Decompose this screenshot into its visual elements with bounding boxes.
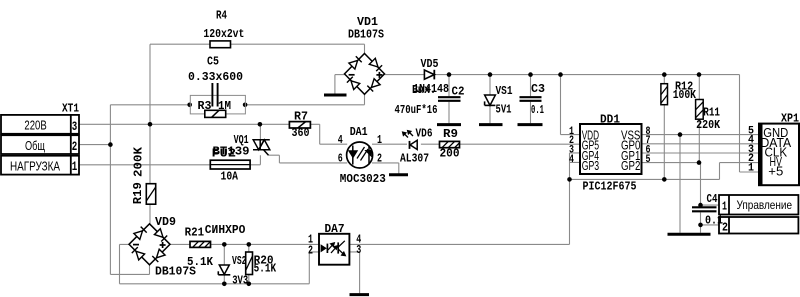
svg-text:MOC3023: MOC3023	[340, 173, 386, 186]
svg-text:10A: 10A	[221, 170, 239, 183]
svg-text:2: 2	[72, 139, 78, 154]
svg-text:VD9: VD9	[155, 216, 176, 229]
svg-text:R11: R11	[703, 106, 720, 119]
svg-text:3: 3	[356, 244, 361, 257]
svg-text:DA7: DA7	[325, 223, 345, 236]
svg-text:0.1: 0.1	[531, 104, 544, 117]
svg-text:4: 4	[569, 154, 574, 166]
svg-text:R21: R21	[185, 227, 205, 240]
svg-text:VD5: VD5	[421, 58, 439, 71]
svg-text:+5: +5	[768, 164, 783, 179]
svg-text:3: 3	[72, 119, 78, 134]
svg-text:НАГРУЗКА: НАГРУЗКА	[10, 160, 61, 174]
svg-text:R19: R19	[132, 182, 145, 204]
svg-text:470uF*16: 470uF*16	[395, 104, 438, 117]
svg-text:VD6: VD6	[416, 128, 433, 141]
svg-text:1: 1	[377, 134, 382, 147]
svg-text:DA1: DA1	[350, 126, 368, 139]
svg-text:220В: 220В	[24, 118, 46, 132]
svg-text:СИНХРО: СИНХРО	[205, 224, 246, 237]
svg-text:360: 360	[292, 127, 310, 140]
svg-text:DB107S: DB107S	[348, 29, 384, 42]
svg-text:Управление: Управление	[737, 198, 793, 212]
svg-text:5.1K: 5.1K	[187, 256, 213, 269]
svg-text:200: 200	[440, 148, 460, 161]
svg-text:AL307: AL307	[400, 153, 429, 166]
svg-text:2: 2	[377, 153, 382, 166]
svg-text:GP3: GP3	[582, 159, 599, 173]
svg-text:0.1: 0.1	[705, 215, 723, 228]
svg-text:220K: 220K	[696, 119, 720, 132]
svg-text:5.1K: 5.1K	[254, 263, 277, 276]
svg-text:100K: 100K	[673, 89, 696, 102]
svg-text:2: 2	[722, 222, 728, 235]
svg-text:3V3: 3V3	[232, 275, 248, 288]
svg-text:VD1: VD1	[357, 16, 378, 29]
svg-text:VS1: VS1	[496, 85, 513, 98]
svg-text:PIC12F675: PIC12F675	[583, 181, 637, 194]
svg-text:R9: R9	[443, 128, 458, 141]
svg-text:C3: C3	[531, 83, 545, 96]
svg-text:1M: 1M	[218, 100, 231, 113]
svg-text:0.33x600: 0.33x600	[188, 71, 243, 84]
svg-text:4: 4	[338, 134, 343, 147]
svg-text:5V1: 5V1	[496, 104, 512, 117]
svg-text:C5: C5	[207, 56, 219, 69]
svg-text:1: 1	[722, 201, 727, 214]
svg-text:C4: C4	[707, 193, 718, 206]
svg-text:XT1: XT1	[62, 103, 79, 116]
svg-text:6: 6	[338, 153, 343, 166]
svg-text:DD1: DD1	[600, 114, 620, 127]
svg-text:5: 5	[646, 154, 651, 166]
svg-text:R4: R4	[216, 10, 227, 23]
svg-text:GP2: GP2	[621, 159, 640, 173]
svg-text:C2: C2	[452, 86, 465, 99]
svg-text:200K: 200K	[132, 147, 145, 177]
svg-text:R3: R3	[198, 100, 212, 113]
svg-text:R7: R7	[294, 111, 308, 124]
svg-text:VS2: VS2	[232, 255, 247, 268]
svg-text:2: 2	[308, 245, 313, 258]
svg-text:1: 1	[748, 162, 754, 174]
svg-text:FU2: FU2	[212, 148, 237, 161]
svg-text:120x2vt: 120x2vt	[203, 28, 244, 41]
svg-text:Вых.: Вых.	[412, 84, 436, 97]
svg-text:XP1: XP1	[781, 113, 799, 126]
svg-text:Общ: Общ	[25, 139, 45, 153]
svg-text:1: 1	[72, 159, 78, 174]
